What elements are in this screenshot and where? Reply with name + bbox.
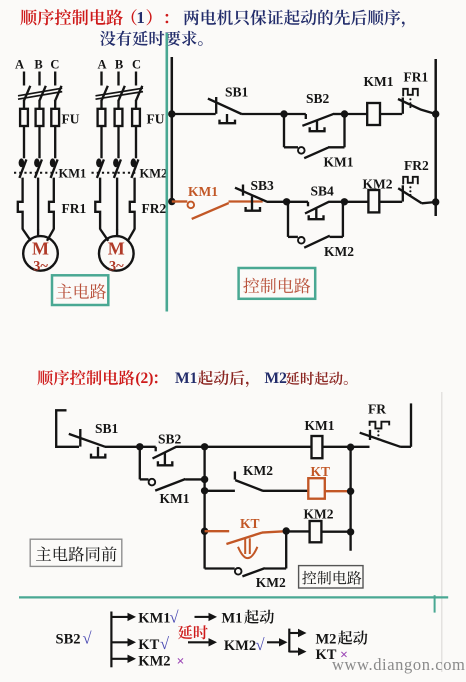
svg-text:www.diangon.com: www.diangon.com bbox=[332, 655, 466, 674]
wire pole C to fuse bbox=[54, 101, 56, 109]
contactor main contact pole A bbox=[96, 158, 102, 167]
svg-text:KM1: KM1 bbox=[59, 167, 87, 181]
KM1 interlock contact (orange) bbox=[172, 200, 188, 202]
title 1 fullwidth paren close bbox=[147, 9, 152, 25]
svg-text:FU: FU bbox=[147, 112, 165, 127]
svg-text:KT: KT bbox=[311, 464, 331, 479]
wire pole A to fuse bbox=[23, 101, 25, 109]
KM2 aux contact parallel branch bbox=[287, 201, 288, 203]
contactor coil KM2 circuit2 bbox=[310, 521, 322, 542]
thermal relay contact FR2 (NC) bbox=[402, 185, 404, 201]
motor M2 circle bbox=[99, 236, 134, 271]
knife switch QS blade pole A bbox=[101, 86, 108, 102]
flow branch bracket bbox=[288, 629, 290, 653]
svg-text:FU: FU bbox=[62, 112, 80, 127]
svg-text:B: B bbox=[34, 58, 42, 72]
contactor coil KM2 bbox=[368, 190, 379, 212]
svg-text:KM2: KM2 bbox=[256, 575, 286, 590]
wire fuse to contactor pole B bbox=[38, 126, 40, 158]
node after SB2 bbox=[341, 110, 348, 117]
knife switch QS linkage bar bbox=[18, 92, 62, 100]
wire fuse to contactor pole C bbox=[54, 126, 56, 158]
fuse FU pole A bbox=[20, 109, 28, 126]
svg-text:M1: M1 bbox=[222, 611, 243, 627]
svg-text:M2: M2 bbox=[265, 370, 288, 387]
flow arrow to branch bbox=[267, 641, 281, 643]
svg-text:(2): (2) bbox=[135, 370, 153, 387]
contactor linkage dotted line bbox=[14, 172, 57, 174]
KM1 aux contact parallel circuit2 bbox=[139, 447, 141, 480]
svg-text:FR: FR bbox=[368, 402, 386, 417]
svg-text:KM2: KM2 bbox=[304, 506, 334, 521]
svg-text:SB4: SB4 bbox=[311, 183, 335, 198]
wire phase C stub bbox=[54, 72, 56, 86]
wire SB1 to node1 bbox=[105, 446, 140, 448]
wire to KM2 coil bbox=[286, 530, 309, 532]
KT rung: wire bbox=[205, 490, 235, 492]
wire coil to node3 bbox=[322, 446, 350, 448]
knife switch QS blade pole A bbox=[24, 86, 31, 102]
pushbutton SB1 (NC) bbox=[215, 97, 217, 114]
svg-text:KM1: KM1 bbox=[188, 184, 218, 199]
title 1 fullwidth paren open bbox=[132, 9, 137, 25]
node1 circuit2 bbox=[136, 443, 143, 450]
flow delay arrow bbox=[188, 641, 210, 643]
svg-text:SB2: SB2 bbox=[306, 91, 330, 106]
svg-text:√: √ bbox=[160, 634, 170, 653]
wire KT coil to right vertical (orange) bbox=[325, 490, 351, 492]
svg-text:3~: 3~ bbox=[109, 259, 124, 275]
svg-text:×: × bbox=[177, 654, 185, 669]
svg-text:FR1: FR1 bbox=[62, 201, 87, 216]
svg-text:√: √ bbox=[256, 635, 266, 654]
wire fuse to contactor pole A bbox=[100, 126, 102, 158]
svg-text:KM2: KM2 bbox=[324, 244, 354, 259]
fuse FU pole C bbox=[51, 109, 59, 126]
node rung2 right bbox=[432, 198, 439, 205]
label box 主电路同前 bbox=[30, 539, 122, 566]
node KM1 branch join bbox=[201, 476, 208, 483]
svg-text:KM2: KM2 bbox=[138, 653, 170, 669]
wire to KM1 coil bbox=[345, 113, 368, 115]
wire coil to FR2 bbox=[379, 201, 402, 203]
node after SB4 bbox=[341, 198, 348, 205]
circuit2 supply entry bbox=[56, 410, 79, 447]
label box 控制电路 circuit2 bbox=[299, 566, 363, 588]
wire fuse to contactor pole B bbox=[117, 126, 119, 158]
pushbutton SB2 (NO) circuit2 bbox=[140, 446, 156, 448]
svg-text:KM1: KM1 bbox=[138, 610, 170, 626]
svg-text:FR1: FR1 bbox=[404, 70, 429, 85]
circuit2 left vertical bbox=[203, 447, 205, 569]
control circuit label box 控制电路 bbox=[239, 268, 316, 299]
svg-text:√: √ bbox=[170, 607, 180, 626]
svg-text:KM2: KM2 bbox=[140, 167, 168, 181]
thermal relay FR element pole C bbox=[130, 178, 135, 230]
thermal relay contact FR1 (NC) bbox=[402, 98, 404, 114]
knife switch QS linkage bar bbox=[96, 92, 144, 100]
wire pole B down bbox=[116, 178, 118, 230]
wire SB3 to node bbox=[266, 201, 286, 203]
title 1 navy text 两电机只保证起动的先后顺序， bbox=[184, 10, 405, 28]
node before KM2 coil bbox=[283, 527, 290, 534]
knife switch QS blade pole B bbox=[118, 86, 125, 102]
svg-text:M2: M2 bbox=[316, 631, 337, 647]
node after SB3 bbox=[283, 198, 290, 205]
knife switch QS blade pole C bbox=[136, 86, 143, 102]
wire phase A stub bbox=[100, 72, 102, 86]
svg-text:M: M bbox=[108, 239, 125, 259]
title 1 fullwidth colon bbox=[166, 14, 169, 23]
node KM2 rung right bbox=[347, 528, 354, 535]
svg-text:KM1: KM1 bbox=[324, 155, 354, 170]
contactor main contact pole B bbox=[34, 158, 40, 167]
wire pole B to fuse bbox=[38, 101, 40, 109]
svg-text:KM2: KM2 bbox=[243, 463, 273, 478]
wire SB1 to node bbox=[241, 113, 284, 115]
node3 circuit2 bbox=[347, 444, 354, 451]
svg-text:A: A bbox=[15, 58, 24, 72]
node KT rung left bbox=[201, 487, 208, 494]
title 1 line 2 没有延时要求。 bbox=[100, 31, 203, 46]
wire pole B to fuse bbox=[117, 101, 119, 109]
flow arrow row3 bbox=[111, 658, 129, 660]
contactor main contact pole B bbox=[113, 158, 119, 167]
wire phase B stub bbox=[117, 72, 119, 86]
svg-text:C: C bbox=[50, 58, 59, 72]
knife switch QS blade pole C bbox=[55, 86, 62, 102]
node KM2 rung left bbox=[201, 528, 208, 535]
KM2 selfhold branch bottom bbox=[205, 567, 235, 569]
control circuit right rail bbox=[434, 59, 437, 216]
divider teal vertical line bbox=[166, 33, 169, 312]
time relay coil KT (orange) bbox=[308, 478, 325, 499]
pushbutton SB1 (NC) circuit2 bbox=[79, 429, 81, 447]
pushbutton SB3 (NC) bbox=[242, 185, 244, 196]
svg-text:√: √ bbox=[83, 629, 93, 648]
svg-text:KM1: KM1 bbox=[305, 418, 335, 433]
motor M1 leads bbox=[23, 229, 31, 241]
svg-text:KT: KT bbox=[138, 637, 159, 653]
svg-text:SB1: SB1 bbox=[225, 85, 249, 100]
fuse FU pole B bbox=[36, 109, 44, 126]
svg-text:SB2: SB2 bbox=[56, 632, 81, 648]
wire fuse to contactor pole C bbox=[135, 126, 137, 158]
contactor coil KM1 circuit2 bbox=[312, 436, 323, 458]
contactor main contact pole C bbox=[50, 158, 56, 167]
contactor main contact pole A bbox=[19, 158, 25, 167]
wire phase A stub bbox=[23, 72, 25, 86]
pushbutton SB4 (NO) bbox=[287, 201, 308, 203]
wire phase C stub bbox=[135, 72, 137, 86]
title 2 起动后， bbox=[198, 370, 249, 387]
fuse FU pole B bbox=[115, 109, 123, 126]
wire node2 to KM1 coil bbox=[205, 446, 312, 448]
flow 延时 red bbox=[178, 625, 208, 639]
title 2 延时起动。 bbox=[286, 372, 348, 385]
node2 circuit2 bbox=[201, 443, 208, 450]
flow brace vertical bbox=[110, 612, 112, 668]
node rung1 right bbox=[432, 110, 439, 117]
flow arrow row1 bbox=[111, 616, 129, 618]
wire pole A to fuse bbox=[100, 101, 102, 109]
contactor linkage dotted line bbox=[92, 172, 139, 174]
svg-text:KM1: KM1 bbox=[160, 491, 190, 506]
svg-text:1: 1 bbox=[137, 8, 145, 27]
fuse FU pole A bbox=[98, 109, 106, 126]
svg-text:3~: 3~ bbox=[33, 259, 48, 275]
svg-text:C: C bbox=[132, 58, 141, 72]
wire rung1 to SB1 bbox=[172, 113, 216, 115]
rung2 start node bbox=[168, 198, 175, 205]
node KT rung right bbox=[347, 488, 354, 495]
svg-text:SB3: SB3 bbox=[251, 178, 275, 193]
title 2 red 顺序控制电路(2)： bbox=[37, 370, 134, 385]
svg-text:SB2: SB2 bbox=[158, 431, 182, 446]
svg-text:KM2: KM2 bbox=[363, 176, 393, 191]
wire fuse to contactor pole A bbox=[23, 126, 25, 158]
wire pole B down bbox=[37, 178, 39, 230]
KT delayed contact (orange) bbox=[205, 530, 230, 532]
teal short vertical bbox=[434, 595, 436, 612]
wire KM2 coil to right vertical bbox=[321, 531, 350, 533]
wire phase B stub bbox=[38, 72, 40, 86]
svg-text:M: M bbox=[32, 239, 49, 259]
control circuit left bus bbox=[171, 57, 174, 202]
fuse FU pole C bbox=[132, 109, 140, 126]
node rung1 left bbox=[168, 110, 175, 117]
flow arrow row2 bbox=[111, 641, 129, 643]
thermal relay FR element pole A bbox=[95, 178, 100, 230]
svg-text:M1: M1 bbox=[175, 370, 197, 387]
svg-text:B: B bbox=[115, 58, 123, 72]
svg-text:SB1: SB1 bbox=[95, 421, 119, 436]
wire to KM2 coil bbox=[344, 201, 368, 203]
teal separator line bbox=[19, 596, 448, 598]
motor M1 circle bbox=[23, 236, 58, 271]
contactor main contact pole C bbox=[131, 158, 137, 167]
wire pole C to fuse bbox=[135, 101, 137, 109]
thermal relay FR element pole C bbox=[49, 178, 54, 230]
node after SB1 bbox=[280, 110, 287, 117]
pushbutton SB2 (NO) bbox=[284, 113, 306, 115]
svg-text:KM2: KM2 bbox=[224, 638, 256, 654]
KM2 break contact (NC) bbox=[234, 471, 236, 479]
svg-text:KM1: KM1 bbox=[364, 74, 394, 89]
main circuit label box 主电路 bbox=[52, 275, 108, 305]
svg-text:A: A bbox=[97, 58, 106, 72]
wire coil to FR1 bbox=[380, 113, 402, 115]
motor M2 leads bbox=[100, 229, 108, 241]
faint page border line bbox=[441, 392, 443, 672]
thermal relay contact FR (NC) circuit2 bbox=[369, 430, 371, 440]
KM1 aux contact parallel branch bbox=[283, 114, 285, 147]
wire node3 to FR bbox=[351, 446, 370, 448]
svg-text:FR2: FR2 bbox=[404, 158, 429, 173]
svg-text:FR2: FR2 bbox=[142, 201, 167, 216]
title 1 red text 顺序控制电路 bbox=[20, 9, 122, 25]
right supply stub circuit2 bbox=[410, 403, 412, 446]
contactor coil KM1 bbox=[367, 103, 380, 125]
svg-text:KT: KT bbox=[240, 516, 260, 531]
knife switch QS blade pole B bbox=[39, 86, 46, 102]
thermal relay FR element pole A bbox=[18, 178, 23, 230]
flow arrow to M1 bbox=[195, 616, 211, 618]
circuit2 right vertical bbox=[349, 447, 351, 551]
